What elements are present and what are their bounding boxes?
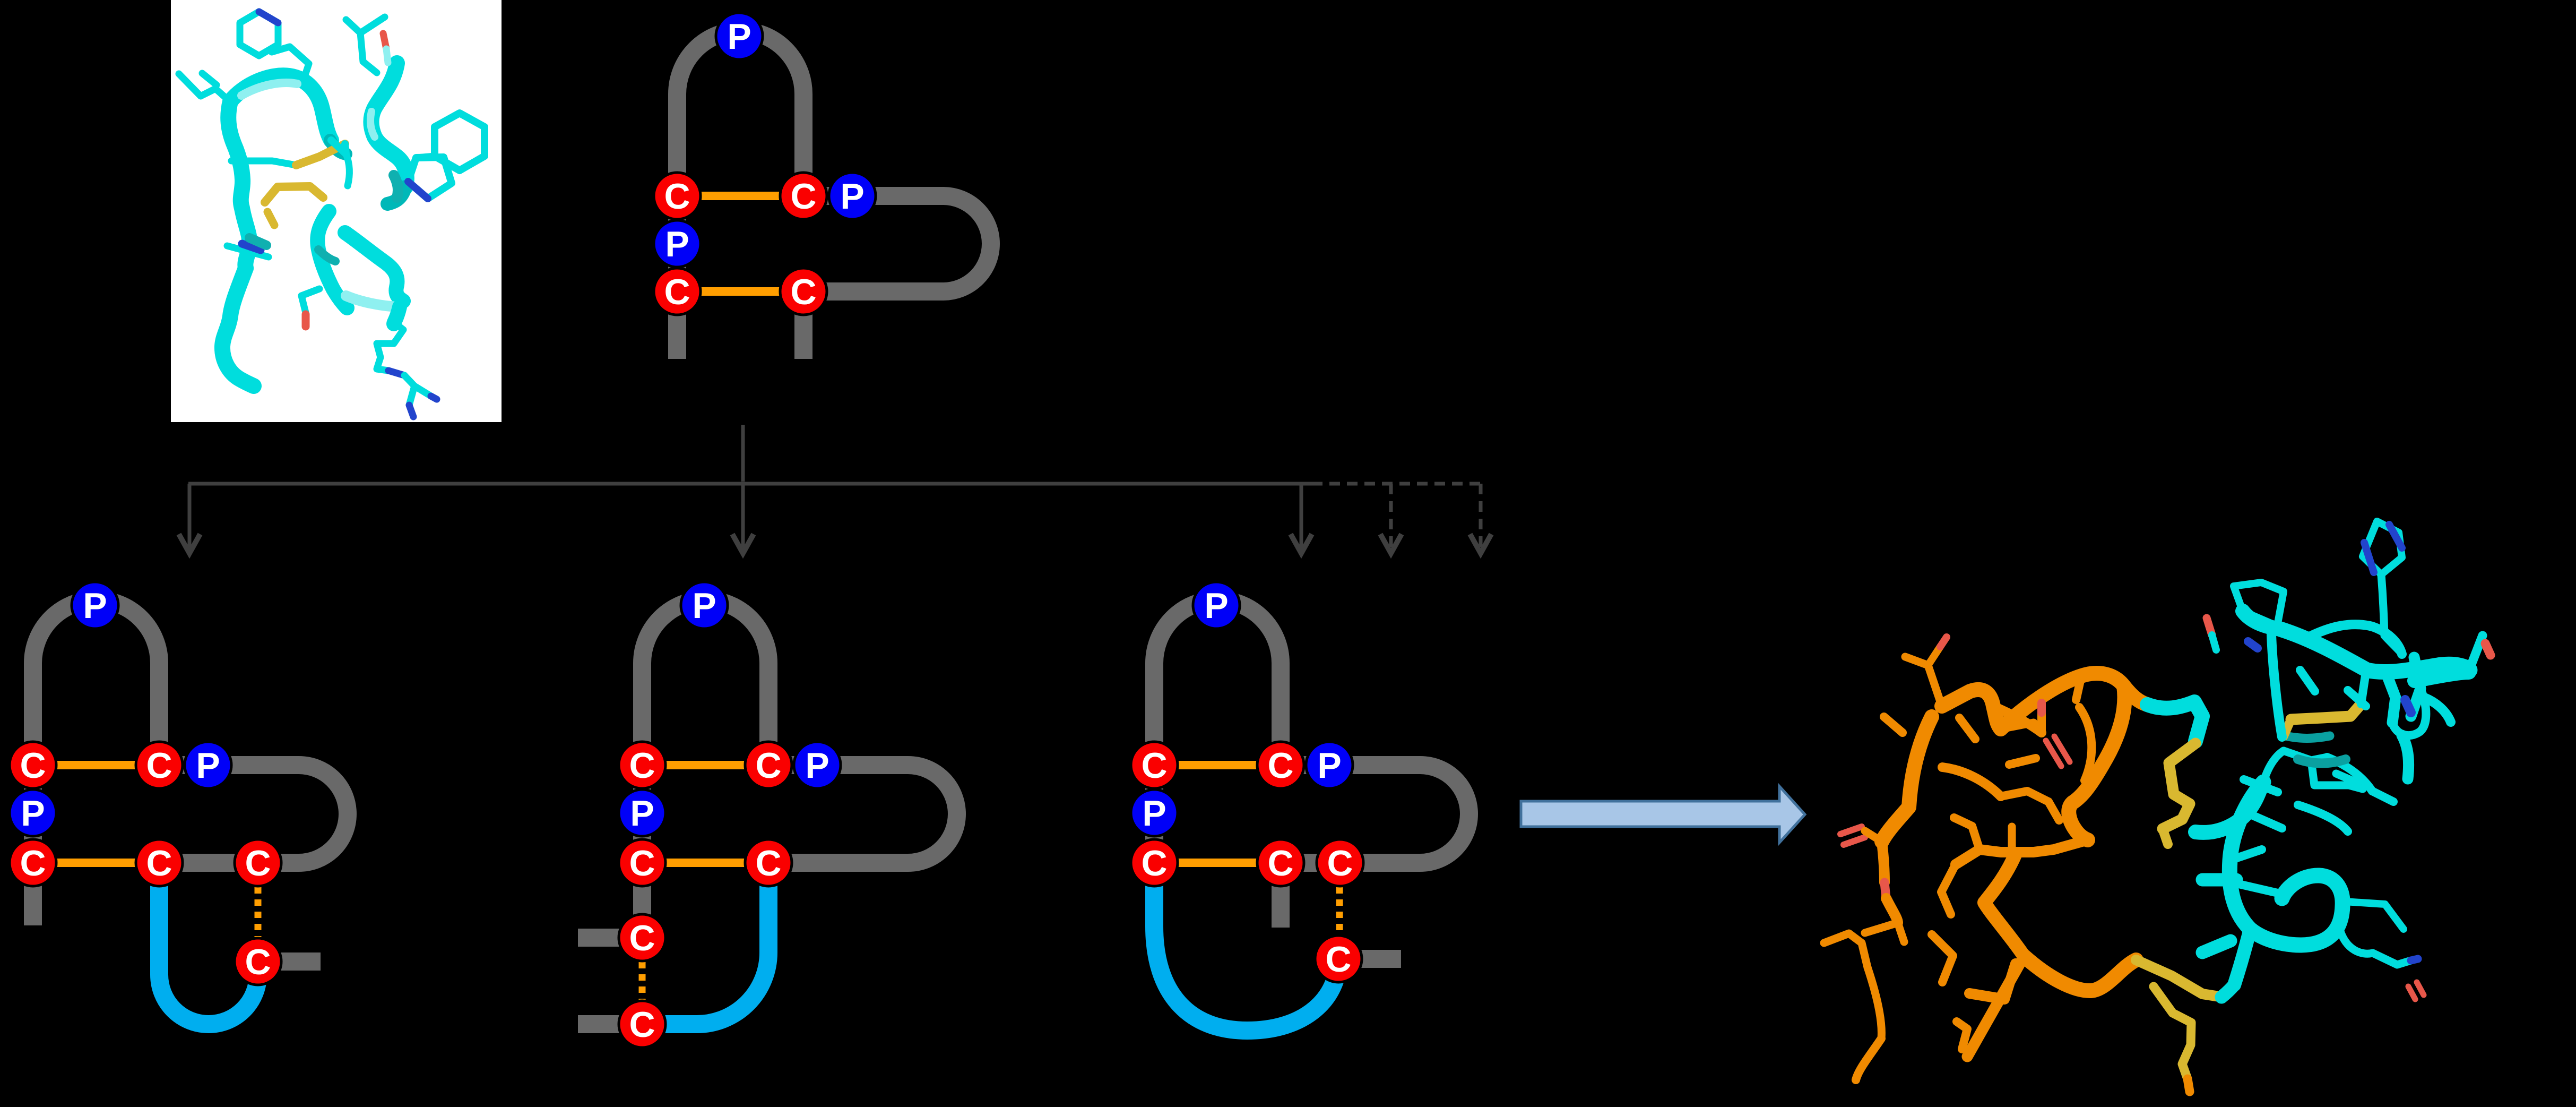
svg-text:C: C (664, 272, 690, 312)
cysteine node C at 2175,1625 (1131, 839, 1178, 886)
cysteine node C at 62,1625 (10, 839, 56, 886)
big blue arrow (1521, 786, 1805, 843)
svg-text:C: C (1141, 843, 1167, 883)
svg-text:C: C (146, 745, 172, 786)
proline node P at 1393,68 (716, 13, 763, 59)
disulfide bond row1 (677, 192, 803, 200)
cysteine node C at 1210,1929 (619, 1001, 665, 1048)
wire: cyan linker loop (159, 863, 258, 1024)
cysteine node C at 1514,369 (780, 173, 827, 219)
schematic variant 3: backbone tube (1131, 582, 1469, 1031)
disulfide bond row1 (33, 761, 159, 769)
svg-text:C: C (755, 745, 781, 786)
proline node P at 2505,1441 (1306, 742, 1353, 788)
cysteine node C at 486,1625 (235, 839, 281, 886)
disulfide bond row3 (33, 859, 159, 867)
svg-text:P: P (21, 793, 45, 834)
disulfide bond row3 (642, 859, 768, 867)
proline node P at 2175,1531 (1131, 790, 1178, 836)
connector horizontal dashed (1312, 482, 1481, 486)
cysteine node C at 2522,1806 (1315, 936, 1362, 982)
wire: gray backbone path (1154, 600, 1469, 928)
svg-text:C: C (629, 843, 655, 883)
proline node P at 2292,1140 (1193, 582, 1240, 629)
cysteine node C at 1514,549 (780, 268, 827, 315)
svg-text:C: C (1267, 843, 1293, 883)
svg-text:C: C (1325, 939, 1351, 980)
wire: gray C-terminal stub (578, 1015, 642, 1033)
svg-text:P: P (692, 586, 716, 626)
wire: gray C-terminal stub (258, 952, 321, 971)
svg-text:C: C (1141, 745, 1167, 786)
proline node P at 1327,1140 (681, 582, 728, 629)
disulfide bond row3 (1154, 859, 1281, 867)
disulfide (dotted) (639, 962, 646, 1001)
cysteine node C at 300,1625 (136, 839, 183, 886)
arrow down at x=2790 (1470, 484, 1491, 553)
cysteine node C at 2525,1625 (1317, 839, 1363, 886)
schematic parent peptide: backbone tube (654, 13, 991, 359)
proline node P at 392,1441 (185, 742, 231, 788)
svg-text:C: C (664, 176, 690, 217)
svg-text:C: C (755, 843, 781, 883)
svg-text:C: C (1327, 843, 1353, 883)
cysteine node C at 300,1441 (136, 742, 183, 788)
svg-text:C: C (245, 942, 271, 982)
svg-text:P: P (805, 745, 829, 786)
svg-text:P: P (196, 745, 220, 786)
cysteine node C at 1448,1625 (745, 839, 792, 886)
cysteine node C at 2413,1441 (1257, 742, 1304, 788)
grafted complex: cyan peptide (2147, 521, 2491, 999)
svg-text:C: C (20, 843, 46, 883)
cysteine node C at 62,1441 (10, 742, 56, 788)
arrow down at x=2621 (1380, 484, 1402, 553)
disulfide bond row1 (1154, 761, 1281, 769)
proline node P at 179,1140 (72, 582, 118, 629)
cysteine node C at 486,1811 (235, 938, 281, 985)
svg-text:P: P (840, 176, 864, 217)
svg-text:P: P (1142, 793, 1166, 834)
svg-text:C: C (790, 272, 816, 312)
wire: gray backbone path (677, 31, 991, 359)
proline node P at 1606,369 (829, 173, 876, 219)
white panel (protein A inset) (171, 0, 502, 422)
svg-text:P: P (665, 224, 689, 264)
wire: gray N-terminal stub (578, 929, 642, 947)
cysteine node C at 1210,1441 (619, 742, 665, 788)
svg-text:P: P (727, 16, 751, 57)
proline node P at 1276,459 (654, 220, 701, 267)
cysteine node C at 1210,1625 (619, 839, 665, 886)
svg-text:C: C (20, 745, 46, 786)
wire: gray backbone path (642, 600, 957, 938)
connector horizontal solid (188, 482, 1312, 486)
svg-text:P: P (630, 793, 654, 834)
schematic variant 2: backbone tube (578, 582, 957, 1048)
cysteine node C at 1276,549 (654, 268, 701, 315)
wire: cyan linker loop (1154, 863, 1338, 1031)
disulfide bond row3 (677, 287, 803, 296)
proline node P at 1210,1531 (619, 790, 665, 836)
svg-text:C: C (629, 745, 655, 786)
svg-text:C: C (1267, 745, 1293, 786)
proline node P at 62,1531 (10, 790, 56, 836)
svg-text:C: C (146, 843, 172, 883)
disulfide (dotted) (1336, 887, 1343, 936)
cysteine node C at 2175,1441 (1131, 742, 1178, 788)
svg-text:C: C (245, 843, 271, 883)
svg-text:P: P (1204, 586, 1228, 626)
schematic variant 1: backbone tube (10, 582, 348, 1024)
arrow down at x=1400 (732, 484, 754, 553)
proline node P at 1540,1441 (794, 742, 841, 788)
arrow down at x=2452 (1291, 484, 1312, 553)
cysteine node C at 1276,369 (654, 173, 701, 219)
svg-text:C: C (629, 1005, 655, 1045)
cysteine node C at 2413,1625 (1257, 839, 1304, 886)
disulfide (dotted) (255, 887, 262, 937)
wire: gray backbone path (33, 600, 348, 925)
svg-text:P: P (1317, 745, 1341, 786)
wire: cyan linker loop (642, 863, 768, 1024)
svg-text:C: C (790, 176, 816, 217)
grafted complex: orange peptide (1824, 637, 2223, 1092)
disulfide bond row1 (642, 761, 768, 769)
protein A cyan stick model (179, 12, 485, 417)
connector stem (741, 425, 745, 482)
svg-text:C: C (629, 918, 655, 958)
wire: gray C-terminal stub (1338, 950, 1401, 968)
cysteine node C at 1448,1441 (745, 742, 792, 788)
svg-text:P: P (83, 586, 107, 626)
arrow down at x=357 (179, 484, 200, 553)
cysteine node C at 1210,1766 (619, 914, 665, 961)
